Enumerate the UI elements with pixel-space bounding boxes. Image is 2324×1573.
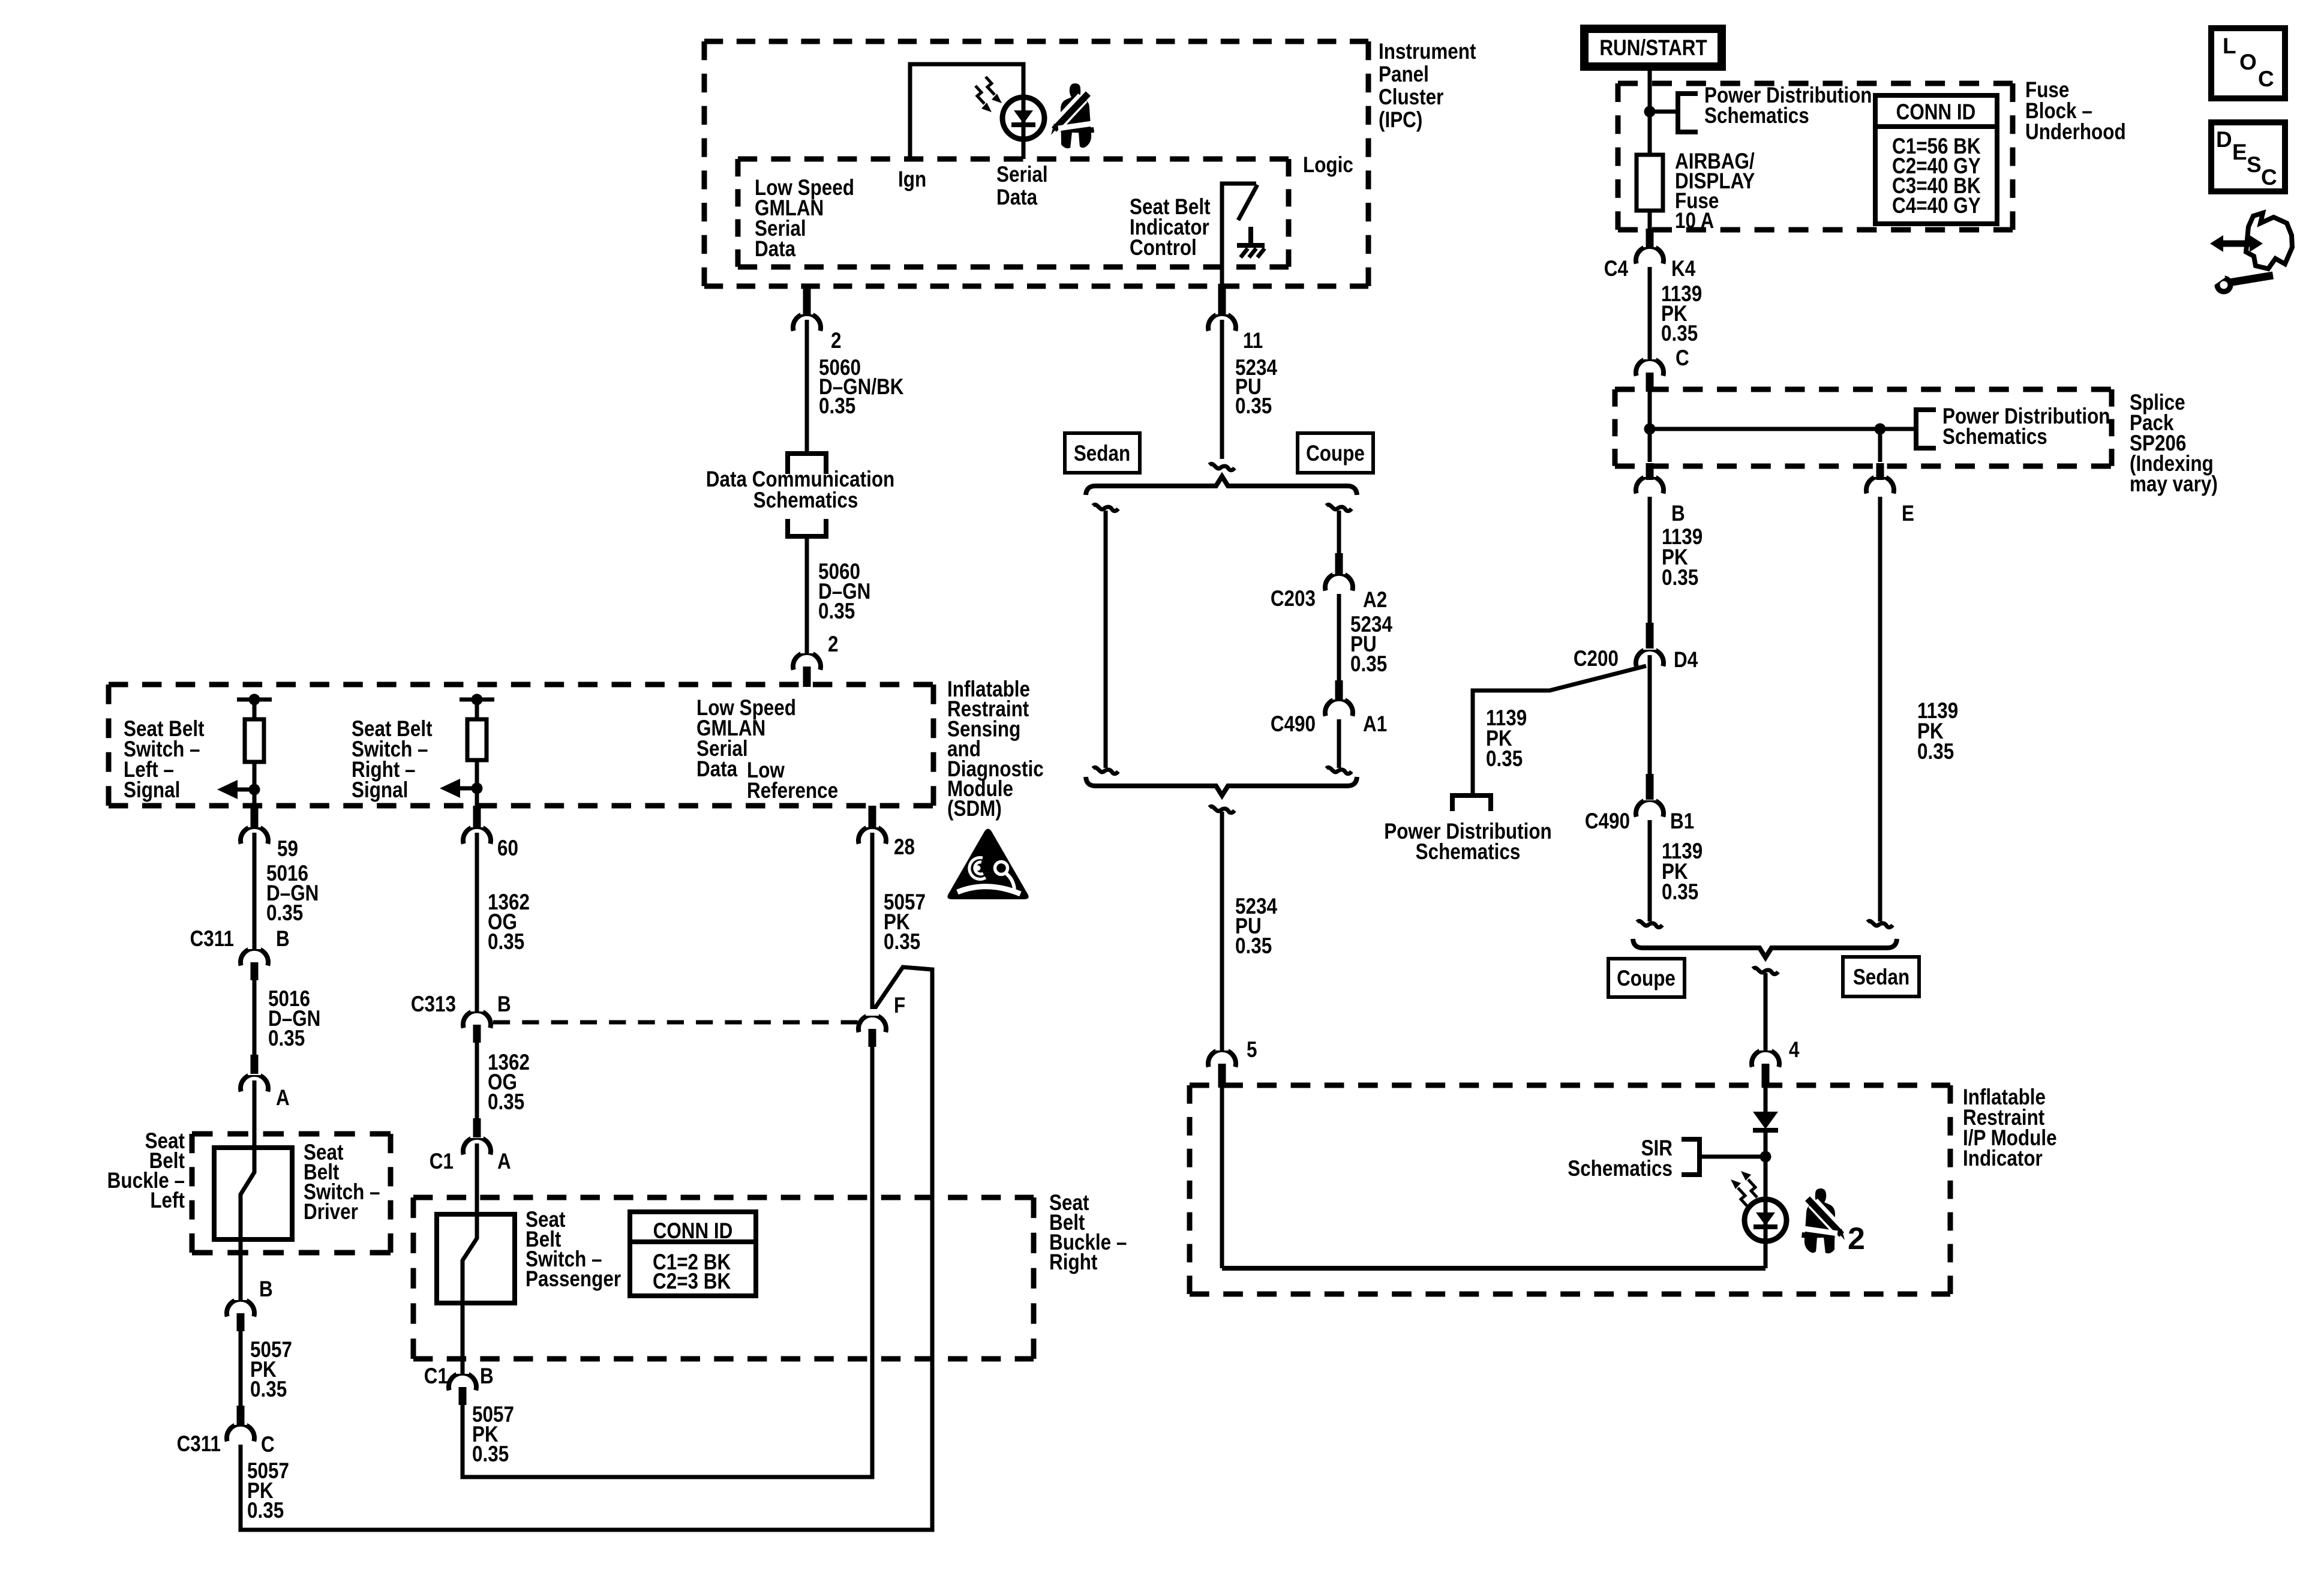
switch: Seat Belt Switch - Passenger [437, 1214, 515, 1303]
off-page ref: Power Distribution Schematics (bottom) [1452, 795, 1491, 811]
svg-text:0.35: 0.35 [266, 901, 303, 926]
connector C490 pin B1 [1636, 800, 1664, 817]
svg-text:L: L [2223, 34, 2236, 58]
wire 5016 D-GN from pin 59 [253, 833, 257, 948]
wire 1139 PK below B [1648, 497, 1652, 623]
resistor: right switch pull-up [467, 719, 487, 760]
variant box: Sedan [1065, 433, 1140, 473]
variant box: Sedan (right) [1843, 957, 1919, 996]
svg-text:0.35: 0.35 [819, 394, 855, 419]
wire diode to LED [1764, 1133, 1768, 1200]
connector C203 pin A2 [1325, 574, 1353, 591]
svg-text:C1: C1 [424, 1364, 448, 1389]
svg-text:C311: C311 [190, 927, 234, 951]
wire: pin 11 inside logic box [1220, 267, 1224, 286]
svg-text:A: A [276, 1086, 290, 1110]
brace: rejoin Coupe/Sedan (right) [1633, 939, 1897, 957]
pin 2 connector at IPC [793, 314, 821, 331]
svg-text:0.35: 0.35 [488, 1090, 524, 1115]
junction dot SIR [1760, 1151, 1771, 1163]
svg-text:0.35: 0.35 [1917, 740, 1954, 764]
svg-text:Reference: Reference [747, 779, 838, 803]
ground: IPC chassis ground [1248, 227, 1253, 245]
svg-text:C: C [2258, 67, 2274, 91]
module box: Inflatable Restraint I/P Module Indicator [1190, 1083, 1950, 1088]
wire 5057 PK below B [239, 1331, 243, 1407]
svg-text:C200: C200 [1574, 647, 1619, 671]
wire below C490 to brace [1648, 820, 1652, 921]
wire 5060 D-GN/BK from IPC pin 2 [805, 320, 809, 451]
wire 5016 D-GN below C311 [253, 980, 257, 1056]
wire below C490 (coupe) [1337, 719, 1341, 768]
svg-text:0.35: 0.35 [1235, 394, 1272, 419]
connector pin A at buckle [241, 1074, 268, 1092]
svg-text:CONN ID: CONN ID [653, 1219, 733, 1244]
switch: Seat Belt Switch - Driver [214, 1148, 292, 1239]
LED light arrows (IP module) [1738, 1188, 1747, 1206]
tie line: connector C313 (pins B to F) [493, 1020, 858, 1025]
wire between C203 and C490 [1337, 594, 1341, 682]
svg-text:0.35: 0.35 [1661, 322, 1698, 346]
LED light arrows (IPC) [986, 77, 995, 95]
svg-text:Driver: Driver [304, 1200, 358, 1224]
brace: rejoin Sedan/Coupe paths [1086, 777, 1357, 795]
wire 1362 OG below C313 [475, 1043, 479, 1119]
connector C490 pin A1 [1325, 699, 1353, 716]
svg-text:Ign: Ign [898, 167, 926, 192]
svg-text:Instrument: Instrument [1379, 40, 1476, 64]
svg-text:28: 28 [894, 835, 915, 860]
wire 1139 PK between C200 and C490 [1648, 655, 1652, 774]
resistor: left switch pull-up [245, 719, 264, 762]
off-page ref: SIR Schematics [1682, 1139, 1700, 1175]
table: CONN ID (fuse block) [1875, 95, 1997, 224]
legend box: LOC [2211, 28, 2285, 98]
module box: Instrument Panel Cluster (IPC) [704, 39, 1368, 44]
svg-text:Serial: Serial [996, 163, 1048, 187]
off-page ref: Data Communication Schematics [788, 454, 826, 474]
icon: seat belt fastened (IPC) [1051, 83, 1094, 149]
pin B connector below splice [1636, 476, 1664, 494]
wire into splice [1648, 390, 1652, 429]
pin 60 connector at SDM [463, 827, 491, 844]
svg-text:B: B [480, 1364, 494, 1389]
svg-text:0.35: 0.35 [1486, 747, 1523, 772]
off-page ref bracket: Power Distribution Schematics (fuse block) [1678, 94, 1698, 132]
svg-text:2: 2 [828, 632, 838, 657]
svg-text:(SDM): (SDM) [947, 797, 1002, 821]
svg-text:B: B [259, 1277, 273, 1302]
indicator LED - IPC seat belt lamp [1002, 97, 1044, 139]
wire 5057 PK from pin 28 [870, 833, 875, 1010]
svg-text:2: 2 [831, 329, 841, 353]
svg-text:0.35: 0.35 [250, 1377, 287, 1402]
connector C313 pin F [858, 1015, 886, 1032]
wire 5057 PK return (passenger) [463, 1044, 872, 1477]
svg-text:K4: K4 [1671, 257, 1695, 281]
svg-text:B: B [276, 927, 290, 951]
svg-text:B: B [497, 992, 511, 1017]
connector C313 pin B [463, 1011, 491, 1028]
svg-text:Signal: Signal [352, 778, 408, 803]
wire 1362 OG from pin 60 [475, 833, 479, 1010]
svg-text:A: A [497, 1149, 511, 1174]
wire: Sedan path (left) [1093, 505, 1118, 511]
indicator LED - IP module seat belt lamp [1744, 1199, 1786, 1241]
wire SIR ref to junction [1700, 1155, 1765, 1159]
svg-text:Panel: Panel [1379, 62, 1429, 87]
svg-text:0.35: 0.35 [1235, 934, 1272, 959]
SDM internal: right switch sense [460, 698, 494, 702]
wire end curl at brace [1209, 464, 1235, 470]
svg-text:2: 2 [1848, 1221, 1865, 1256]
svg-text:C: C [2261, 165, 2277, 190]
wire pin 4 to diode [1764, 1086, 1768, 1113]
svg-text:Coupe: Coupe [1617, 966, 1676, 991]
svg-text:59: 59 [277, 837, 298, 861]
connector C311 pin C [227, 1424, 254, 1442]
svg-text:0.35: 0.35 [818, 599, 855, 624]
svg-text:4: 4 [1789, 1038, 1799, 1062]
wire 1139 PK to splice pack [1648, 267, 1652, 358]
pin 4 connector at IP module [1752, 1050, 1779, 1067]
module box: Fuse Block - Underhood [1618, 81, 2013, 86]
power feed box: RUN/START [1584, 29, 1722, 67]
splice pack box SP206 [1615, 387, 2112, 392]
svg-text:0.35: 0.35 [472, 1442, 509, 1467]
wire fuse to pin C4 [1648, 211, 1652, 232]
svg-text:B: B [1671, 502, 1685, 526]
wire from RUN/START [1648, 71, 1652, 155]
junction dot + signal arrow right [472, 783, 483, 794]
legend box: DESC [2211, 122, 2285, 191]
svg-text:Data: Data [696, 757, 738, 782]
switch: seat belt indicator control driver (IPC) [1222, 184, 1256, 267]
diode inside IP module [1753, 1112, 1778, 1129]
svg-text:11: 11 [1243, 329, 1263, 353]
svg-text:E: E [2232, 140, 2247, 164]
svg-text:B1: B1 [1670, 809, 1694, 834]
icon: seat belt fastened (IP module) [1801, 1188, 1845, 1254]
splice bus wire [1650, 427, 1916, 431]
svg-text:Passenger: Passenger [526, 1267, 621, 1292]
svg-text:5: 5 [1247, 1038, 1257, 1062]
svg-text:Underhood: Underhood [2025, 120, 2126, 145]
wire: LED to logic box (Serial Data) [1022, 99, 1026, 159]
svg-text:C311: C311 [177, 1432, 221, 1457]
svg-text:Logic: Logic [1303, 153, 1353, 178]
svg-text:F: F [894, 993, 905, 1018]
svg-text:Cluster: Cluster [1379, 85, 1443, 110]
junction dot at fuse feed [1644, 106, 1656, 118]
svg-text:may vary): may vary) [2130, 472, 2218, 497]
pin 2 connector at SDM [793, 653, 821, 670]
svg-text:Data: Data [996, 185, 1038, 210]
pin 59 connector at SDM [241, 827, 268, 844]
wire 1139 PK sedan side (E) down [1878, 497, 1882, 921]
svg-text:C203: C203 [1271, 587, 1316, 611]
svg-text:A2: A2 [1363, 588, 1387, 613]
wire 5060 D-GN below ref [805, 536, 809, 652]
svg-text:C2=3 BK: C2=3 BK [653, 1269, 731, 1294]
connector C1 pin B below passenger switch [449, 1373, 476, 1391]
svg-text:Sedan: Sedan [1074, 442, 1130, 466]
svg-text:C313: C313 [411, 992, 456, 1017]
junction dot splice right [1875, 424, 1886, 435]
svg-text:Coupe: Coupe [1306, 442, 1365, 466]
svg-text:0.35: 0.35 [884, 930, 920, 954]
svg-text:RUN/START: RUN/START [1599, 36, 1707, 61]
fuse: AIRBAG/DISPLAY 10A [1637, 155, 1663, 211]
svg-text:Sedan: Sedan [1853, 965, 1909, 990]
wire to pin 4 [1753, 968, 1778, 974]
svg-text:Schematics: Schematics [753, 488, 858, 513]
wire: Ign feed inside IPC [910, 64, 1023, 159]
svg-text:0.35: 0.35 [488, 930, 524, 954]
legend icon: service tool (arrow/wrench) [2246, 213, 2292, 269]
wire pin5 leg down [1220, 1086, 1224, 1268]
pin C4/K4 connector [1636, 247, 1664, 264]
wire to power distribution ref [1650, 110, 1678, 114]
module box: Inflatable Restraint Sensing and Diagnostic Module (SDM) [109, 682, 933, 688]
brace: split to Sedan/Coupe paths [1086, 476, 1357, 495]
pin E connector below splice [1866, 476, 1894, 494]
svg-text:C1: C1 [430, 1149, 454, 1174]
component box: Seat Belt Buckle - Right [413, 1195, 1034, 1200]
caution triangle icon [947, 829, 1028, 900]
wire splice to pin E [1878, 429, 1882, 462]
svg-text:D: D [2216, 127, 2232, 152]
svg-text:C: C [261, 1433, 275, 1457]
svg-text:Right: Right [1049, 1250, 1098, 1275]
svg-text:C4: C4 [1604, 257, 1628, 281]
component box: Seat Belt Buckle - Left [192, 1131, 391, 1137]
svg-text:C4=40 GY: C4=40 GY [1892, 194, 1981, 218]
pin 11 connector at IPC [1208, 314, 1236, 331]
svg-text:E: E [1902, 502, 1914, 526]
wire 5057 PK return path (driver) [241, 967, 932, 1530]
svg-text:C490: C490 [1271, 712, 1316, 737]
svg-text:60: 60 [497, 836, 518, 861]
svg-text:Left: Left [150, 1188, 185, 1213]
svg-text:10 A: 10 A [1675, 209, 1714, 233]
svg-text:0.35: 0.35 [1350, 652, 1387, 677]
off-page ref bracket: Power Distribution Schematics (splice) [1916, 410, 1936, 448]
svg-text:C: C [1676, 346, 1689, 371]
logic box inside IPC [738, 157, 1289, 162]
pin 5 connector at IP module [1208, 1050, 1236, 1067]
svg-text:0.35: 0.35 [247, 1499, 284, 1523]
variant box: Coupe [1298, 433, 1373, 473]
connector C311 pin B [241, 948, 268, 966]
svg-text:C490: C490 [1585, 809, 1630, 834]
variant box: Coupe (right) [1608, 959, 1685, 997]
table: CONN ID (buckle right) [630, 1212, 756, 1296]
svg-text:Schematics: Schematics [1416, 840, 1521, 864]
svg-text:Indicator: Indicator [1963, 1146, 2043, 1171]
svg-text:S: S [2247, 152, 2262, 177]
svg-text:0.35: 0.35 [1662, 880, 1698, 905]
wire bottom bus of IP module [1222, 1266, 1765, 1271]
wire splice to pin B [1648, 429, 1652, 462]
svg-text:Schematics: Schematics [1568, 1157, 1673, 1181]
svg-text:0.35: 0.35 [268, 1026, 305, 1051]
wire 5234 PU to connector 5 [1209, 806, 1235, 812]
svg-text:Signal: Signal [124, 778, 180, 803]
svg-text:Schematics: Schematics [1942, 425, 2047, 449]
wire LED to bottom bus [1764, 1241, 1768, 1268]
junction dot splice left [1644, 424, 1656, 435]
svg-text:Control: Control [1130, 236, 1197, 260]
wire 5234 PU from pin 11 [1220, 320, 1224, 459]
svg-text:CONN ID: CONN ID [1896, 100, 1976, 125]
pin 28 connector at SDM [858, 827, 886, 844]
svg-text:O: O [2239, 50, 2257, 74]
svg-text:D4: D4 [1674, 648, 1698, 673]
connector C1 pin A at buckle right [463, 1137, 491, 1155]
svg-text:Schematics: Schematics [1704, 104, 1809, 128]
branch wire to power distribution ref (C200) [1473, 666, 1646, 793]
wire: Coupe path (right) upper [1326, 505, 1352, 511]
junction dot + signal arrow left [249, 784, 260, 795]
connector C200 pin D4 [1636, 649, 1664, 667]
connector pin B below driver switch [227, 1299, 254, 1317]
svg-text:A1: A1 [1363, 712, 1387, 737]
svg-text:(IPC): (IPC) [1379, 108, 1422, 133]
svg-text:0.35: 0.35 [1662, 566, 1698, 590]
SDM internal: left switch sense [237, 698, 272, 702]
svg-text:Data: Data [755, 237, 796, 262]
